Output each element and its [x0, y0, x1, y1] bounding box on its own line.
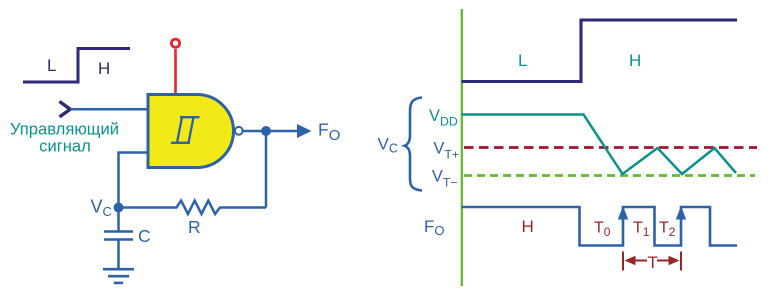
svg-text:VT−: VT− [432, 167, 458, 189]
svg-text:T1: T1 [633, 220, 650, 240]
svg-text:VDD: VDD [429, 107, 458, 129]
schmitt trigger hysteresis symbol [171, 117, 200, 143]
ground [103, 269, 134, 283]
VT- dashed threshold line [464, 174, 755, 177]
svg-text:FO: FO [318, 120, 340, 144]
svg-text:VC: VC [378, 134, 398, 155]
node VC junction dot [114, 203, 124, 213]
red pin terminal circle [171, 39, 179, 47]
svg-text:L: L [518, 51, 527, 70]
resistor R [119, 201, 267, 214]
junction node on output [261, 126, 271, 136]
svg-text:VT+: VT+ [433, 140, 459, 162]
rising edge arrow 2 [676, 206, 686, 220]
input step waveform L to H [23, 49, 130, 83]
wire: control signal to gate input [70, 108, 150, 111]
svg-text:H: H [522, 217, 534, 236]
wire: gate output to FO arrow [244, 130, 299, 133]
period T measurement ticks [623, 252, 681, 271]
output arrowhead [297, 124, 312, 138]
svg-text:L: L [47, 56, 56, 75]
rising edge arrow 1 [618, 206, 628, 220]
svg-text:H: H [629, 51, 641, 70]
schmitt NAND gate U1 body [148, 95, 234, 168]
svg-text:T2: T2 [659, 220, 676, 240]
red pin wire [174, 49, 177, 95]
VT+ dashed threshold line [464, 146, 757, 149]
input chevron arrow [60, 102, 71, 117]
svg-text:C: C [138, 226, 151, 246]
waveform: gate input step L to H [462, 20, 738, 82]
left measure arrow [634, 260, 647, 262]
svg-text:T: T [648, 253, 658, 272]
VC capacitor voltage curve [462, 115, 737, 175]
svg-text:T0: T0 [594, 220, 611, 240]
wire: feedback from node VC to gate lower input [119, 153, 151, 208]
svg-text:VC: VC [91, 197, 112, 220]
svg-text:R: R [188, 217, 201, 237]
svg-text:сигнал: сигнал [39, 137, 91, 156]
timing axis (vertical green line) [461, 9, 463, 286]
capacitor C [104, 208, 133, 270]
FO output waveform [462, 207, 738, 246]
brace for VC group [405, 98, 423, 191]
svg-text:FO: FO [424, 217, 445, 238]
gate output inversion bubble [235, 127, 243, 135]
wire: output junction down to resistor [265, 131, 268, 208]
right measure arrow [657, 260, 670, 262]
svg-text:H: H [98, 59, 110, 78]
